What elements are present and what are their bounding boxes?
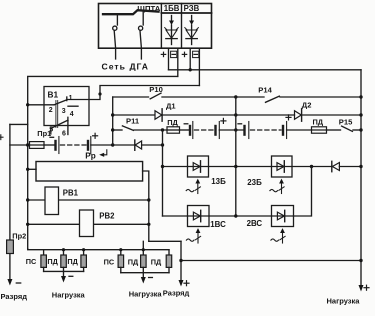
В1 contact 6 wire stub bbox=[67, 121, 69, 135]
label − Разряд bbox=[16, 282, 20, 284]
label − battery1 bbox=[50, 136, 54, 138]
node CV end on row ВС bbox=[234, 214, 237, 217]
node CV row3 bbox=[234, 128, 237, 131]
svg-text:1: 1 bbox=[69, 95, 73, 102]
Пр2 branch top link bbox=[10, 123, 28, 125]
label − cell3 bbox=[238, 123, 242, 125]
В1 contact 3-4 bbox=[68, 105, 78, 107]
wire stub −1БВ bbox=[177, 48, 179, 76]
label + cell2 bbox=[221, 118, 226, 123]
row Б wire from V1 bbox=[163, 166, 188, 168]
svg-text:Р10: Р10 bbox=[149, 85, 163, 94]
node row Б right rail bbox=[359, 165, 362, 168]
contact Р10 blade bbox=[150, 93, 161, 99]
svg-text:ПС: ПС bbox=[104, 257, 115, 266]
bus bar with master blade ЩПТА bbox=[103, 10, 159, 14]
svg-text:Р15: Р15 bbox=[339, 118, 353, 127]
drop group1 with arrow bbox=[61, 271, 66, 282]
row Б wire right bbox=[292, 166, 332, 168]
svg-text:13Б: 13Б bbox=[211, 177, 226, 186]
fuse Пр2 bbox=[7, 240, 14, 254]
cell4 positive plate bbox=[286, 122, 288, 139]
selector switch box В1 bbox=[44, 87, 89, 126]
node V1 row4 bbox=[161, 143, 164, 146]
svg-text:ПД: ПД bbox=[47, 257, 58, 266]
battery2 positive plate bbox=[90, 137, 92, 154]
wire stub +1БВ bbox=[168, 48, 170, 70]
divider 1БВ/РЗВ bbox=[181, 4, 183, 49]
svg-text:ПД: ПД bbox=[151, 257, 162, 266]
В1 contact 2 wire to left rail bbox=[28, 104, 55, 106]
node L1 left bbox=[26, 198, 29, 201]
node row Д right rail bbox=[359, 113, 362, 116]
svg-text:ПД: ПД bbox=[67, 257, 78, 266]
row Д wire middle bbox=[162, 114, 295, 116]
vertical V0 bbox=[112, 97, 114, 145]
switch Сеть: blade wire down bbox=[114, 31, 115, 59]
node V0 row3 bbox=[111, 128, 114, 131]
svg-text:ПД: ПД bbox=[313, 118, 324, 127]
gate mark 23Б bbox=[270, 179, 284, 194]
wire bbox=[327, 129, 341, 131]
node CV row Б bbox=[234, 165, 237, 168]
switch ДГА: hinge circle bbox=[139, 26, 143, 30]
divider ЩПТА/1БВ bbox=[160, 4, 162, 49]
node L1 right bbox=[147, 198, 150, 201]
svg-text:Нагрузка: Нагрузка bbox=[327, 296, 361, 305]
wire L2 РВ2 line bbox=[28, 223, 149, 225]
node V0 row Д bbox=[111, 113, 114, 116]
wire bbox=[219, 129, 244, 131]
svg-text:23Б: 23Б bbox=[247, 178, 262, 187]
row Б wire middle bbox=[209, 166, 272, 168]
relay coil Рр rectangle bbox=[36, 162, 143, 182]
vertical Разряд+ bbox=[180, 241, 182, 280]
wire L1 РВ1 line bbox=[28, 199, 149, 201]
cell4 negative plate bbox=[282, 126, 284, 135]
svg-text:1ВС: 1ВС bbox=[210, 220, 226, 229]
row 3 wire bbox=[134, 129, 167, 131]
node bus g1b bbox=[82, 248, 85, 251]
svg-text:Д1: Д1 bbox=[166, 101, 176, 110]
artifact + at left edge bbox=[0, 135, 3, 140]
cell3 negative plate bbox=[243, 126, 245, 135]
wire 2ВС up to row Б bbox=[294, 167, 312, 217]
long wire to right rail bbox=[181, 260, 361, 262]
wire: positive bus A across top bbox=[169, 69, 362, 71]
svg-text:1БВ: 1БВ bbox=[164, 4, 180, 13]
cell1 positive plate bbox=[192, 122, 194, 139]
label strip line under 1БВ/РЗВ bbox=[161, 12, 211, 14]
node CV row Д bbox=[234, 113, 237, 116]
stub to group2 bus bbox=[142, 241, 144, 250]
contact Р15 blade bbox=[342, 126, 353, 131]
cell2 negative plate bbox=[214, 126, 216, 135]
diode Д1 bbox=[155, 109, 162, 121]
wire: bus C from −РЗВ to В1 bbox=[67, 86, 200, 100]
Пр2 branch vertical bbox=[9, 124, 11, 279]
svg-text:Разряд: Разряд bbox=[1, 292, 28, 301]
svg-text:ПД: ПД bbox=[167, 118, 178, 127]
node L2 right bbox=[147, 223, 150, 226]
svg-text:Сеть: Сеть bbox=[102, 61, 126, 71]
battery1 dashed link bbox=[61, 144, 87, 146]
label − group1 bbox=[69, 275, 73, 277]
switch ДГА: blade wire down bbox=[140, 31, 141, 59]
gate mark 1ВС bbox=[186, 228, 200, 243]
battery2 negative plate bbox=[87, 141, 89, 150]
arrow Разряд− bbox=[7, 279, 12, 286]
wire stub −РЗВ bbox=[198, 48, 200, 85]
node long line bbox=[179, 259, 182, 262]
gate mark 13Б bbox=[186, 179, 200, 194]
row Д wire right bbox=[302, 114, 362, 116]
svg-text:Нагрузка: Нагрузка bbox=[52, 290, 86, 299]
wire bbox=[287, 129, 312, 131]
bottom bus group2 bbox=[121, 272, 169, 274]
arrow Разряд+ bbox=[179, 280, 184, 287]
resistor ПД (left) bbox=[167, 127, 180, 133]
drop group2 with arrow bbox=[141, 273, 146, 284]
node row3 right rail bbox=[359, 128, 362, 131]
vertical V1 bbox=[162, 130, 164, 216]
node bus g2 ПС bbox=[119, 248, 122, 251]
В1 contact 5-6 blade bbox=[51, 120, 68, 128]
wire corner to Разряд+ bbox=[149, 240, 181, 242]
svg-text:Д2: Д2 bbox=[302, 101, 312, 110]
wire to right rail bbox=[353, 129, 361, 131]
label − cell1 bbox=[184, 123, 188, 125]
vertical CV center bbox=[235, 97, 237, 216]
diode Дш (points left) on row4 bbox=[135, 140, 163, 150]
node CV row P bbox=[234, 95, 237, 98]
node bus g1a bbox=[62, 248, 65, 251]
svg-text:ПС: ПС bbox=[26, 257, 37, 266]
resistor ПС group1 bbox=[41, 250, 47, 272]
svg-text:ПД: ПД bbox=[128, 257, 139, 266]
wire row4 left extension bbox=[10, 144, 30, 146]
switch ДГА: stub bbox=[142, 12, 144, 25]
node row P right rail bbox=[359, 95, 362, 98]
svg-text:Пр1: Пр1 bbox=[37, 129, 51, 138]
bus: load resistor bus bbox=[28, 249, 169, 250]
svg-text:6: 6 bbox=[62, 130, 66, 137]
cell2 positive plate bbox=[218, 122, 220, 139]
diode (points left) row Б bbox=[332, 161, 361, 171]
node В1-2 on left rail bbox=[26, 103, 29, 106]
resistor ПД g2b bbox=[166, 250, 172, 273]
stub left rail to Рр coil bbox=[28, 168, 36, 170]
valve unit 2ВС bbox=[272, 206, 294, 227]
wire bbox=[180, 129, 190, 131]
svg-text:2: 2 bbox=[49, 107, 53, 114]
relay РВ1 bbox=[45, 187, 59, 215]
terminal − (1БВ) boxed bbox=[171, 51, 177, 57]
resistor ПС group2 bbox=[118, 250, 124, 273]
resistor ПД (right) bbox=[312, 127, 327, 133]
valve unit 13Б bbox=[188, 156, 209, 177]
terminal + (РЗВ) bbox=[182, 52, 186, 56]
wire bbox=[44, 144, 55, 146]
resistor ПД g1a bbox=[61, 250, 67, 272]
svg-text:2ВС: 2ВС bbox=[247, 219, 263, 228]
node bus g2a bbox=[142, 248, 145, 251]
row ВС wire middle bbox=[209, 215, 272, 217]
label + Нагрузка bbox=[364, 285, 369, 290]
node: +РЗВ on bus A bbox=[189, 68, 192, 71]
svg-text:Пр2: Пр2 bbox=[12, 231, 26, 240]
contact Р14 blade bbox=[266, 96, 280, 102]
relay РВ2 bbox=[80, 210, 94, 237]
switchboard box ЩПТА bbox=[99, 4, 212, 49]
В1 contact 1-2 blade bbox=[54, 100, 66, 105]
rectifier РЗВ: feed arrow bbox=[191, 16, 193, 21]
svg-text:4: 4 bbox=[70, 111, 74, 118]
rectifier РЗВ: valve symbol bbox=[191, 25, 193, 45]
svg-text:3: 3 bbox=[62, 108, 66, 115]
svg-text:Р14: Р14 bbox=[258, 86, 272, 95]
wire 1ВС feed corner bbox=[163, 215, 188, 217]
node L2 left bbox=[26, 223, 29, 226]
terminal + (1БВ) bbox=[161, 52, 165, 56]
node V1 row3 bbox=[161, 128, 164, 131]
stub Рр coil right bbox=[143, 171, 149, 241]
resistor ПД g2a bbox=[141, 250, 147, 273]
cell dashed link bbox=[195, 129, 214, 131]
rectifier 1БВ: valve symbol bbox=[171, 25, 173, 45]
switch Сеть: stub bbox=[116, 14, 118, 25]
battery1 positive plate bbox=[58, 137, 60, 154]
node row4 left rail bbox=[26, 143, 29, 146]
node right rail bottom bbox=[359, 259, 362, 262]
В1 contact 5 wire stub bbox=[50, 128, 52, 134]
svg-text:РВ2: РВ2 bbox=[99, 211, 115, 220]
row P wire right bbox=[280, 96, 361, 98]
label Рр with pointer arrow bbox=[85, 150, 107, 161]
В1 mechanical link bbox=[56, 101, 58, 128]
label + battery2 bbox=[93, 133, 98, 138]
wire: right-side positive rail bbox=[360, 70, 362, 286]
valve unit 1ВС bbox=[188, 206, 210, 227]
svg-text:Разряд: Разряд bbox=[163, 289, 190, 298]
svg-text:ДГА: ДГА bbox=[130, 61, 149, 71]
node branch down bbox=[310, 165, 313, 168]
node V1 row Б bbox=[161, 165, 164, 168]
svg-text:РЗВ: РЗВ bbox=[184, 4, 200, 13]
arrow Нагрузка right bbox=[359, 285, 364, 292]
battery1 negative plate bbox=[54, 141, 56, 150]
contact Р11 blade bbox=[122, 126, 133, 130]
bottom bus group1 bbox=[44, 270, 84, 272]
row 3 wire from V0 bbox=[113, 129, 122, 131]
svg-text:Р11: Р11 bbox=[126, 117, 140, 126]
switch Сеть: hinge circle bbox=[113, 26, 117, 30]
diode Д2 bbox=[295, 109, 302, 121]
rectifier 1БВ: feed arrow bbox=[171, 16, 173, 21]
resistor ПД g1b bbox=[81, 250, 87, 272]
fuse Пр1 bbox=[30, 142, 45, 149]
gate mark 2ВС bbox=[271, 228, 285, 243]
node on В1 wire bbox=[98, 92, 101, 95]
row P wire middle bbox=[162, 96, 264, 98]
cell3 positive plate bbox=[248, 122, 250, 139]
row P wire left bbox=[113, 96, 149, 98]
label − group2 bbox=[149, 277, 153, 279]
node V0 row4 bbox=[111, 143, 114, 146]
svg-text:Рр: Рр bbox=[85, 152, 95, 161]
label + Разряд bbox=[184, 281, 189, 286]
svg-text:РВ1: РВ1 bbox=[63, 188, 79, 197]
valve unit 23Б bbox=[272, 156, 293, 177]
wire stub +РЗВ bbox=[189, 48, 191, 70]
row Д wire left bbox=[113, 114, 155, 116]
wire: negative bus B to left bbox=[28, 76, 178, 248]
svg-text:Нагрузка: Нагрузка bbox=[129, 290, 163, 299]
terminal − (РЗВ) boxed bbox=[193, 51, 199, 57]
label + cell4 bbox=[286, 115, 291, 120]
В1 contact 6 terminal bbox=[67, 117, 69, 121]
wire battery to V1 bbox=[91, 144, 135, 146]
svg-text:В1: В1 bbox=[48, 89, 59, 99]
cell1 negative plate bbox=[189, 126, 191, 135]
В1 contact 1 terminal bbox=[66, 97, 68, 101]
cell dashed link 2 bbox=[251, 129, 282, 131]
node on left rail bbox=[26, 168, 29, 171]
